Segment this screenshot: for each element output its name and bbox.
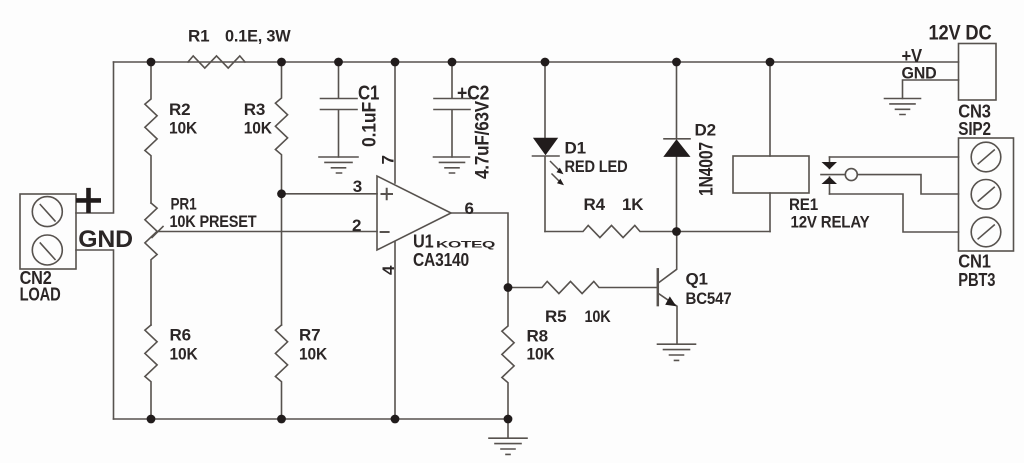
- CN2 screw 2: [32, 235, 62, 265]
- resistor R4: [545, 225, 677, 237]
- svg-text:1K: 1K: [622, 195, 644, 214]
- node dot bottom rail pin4: [391, 415, 400, 424]
- transistor Q1 base bar: [657, 269, 660, 305]
- svg-text:10K: 10K: [170, 345, 199, 364]
- svg-text:0.1uF: 0.1uF: [360, 102, 381, 147]
- svg-text:RE1: RE1: [789, 195, 818, 214]
- svg-text:R1: R1: [188, 27, 209, 46]
- wire R3 bottom to op-amp pin 3: [282, 193, 378, 195]
- ground under C2: [434, 157, 470, 173]
- svg-text:4.7uF/63V: 4.7uF/63V: [473, 101, 494, 179]
- relay pole stub line: [821, 174, 845, 176]
- svg-text:R3: R3: [244, 100, 265, 119]
- resistor R6: [145, 325, 157, 419]
- resistor R7: [275, 325, 287, 419]
- svg-text:10K: 10K: [585, 307, 612, 326]
- potentiometer PR1: [145, 203, 157, 325]
- CN2 screw 1: [32, 197, 62, 227]
- LED D1: [544, 62, 546, 138]
- resistor R5: [508, 281, 657, 293]
- node dot top rail R3: [277, 58, 286, 67]
- plus sign at CN2: [78, 190, 98, 210]
- wire R3 to R7 column: [281, 194, 283, 325]
- relay pole circle: [845, 169, 857, 181]
- transistor Q1 emitter arrow: [665, 296, 676, 306]
- svg-text:3: 3: [353, 177, 362, 196]
- svg-text:D1: D1: [565, 139, 586, 158]
- svg-text:10K PRESET: 10K PRESET: [170, 212, 258, 231]
- node dot top rail C2: [448, 58, 457, 67]
- wire CN2 GND to bottom rail: [76, 250, 114, 419]
- CN1 screw 2: [971, 180, 1001, 210]
- wire CN3 GND: [903, 80, 959, 99]
- wire op-amp output pin 6: [451, 213, 508, 288]
- ground under R8: [489, 438, 527, 454]
- relay RE1 coil box: [733, 156, 809, 193]
- svg-text:RED LED: RED LED: [565, 157, 628, 176]
- relay contact arrow bottom: [822, 177, 838, 184]
- connector CN3 box: [959, 44, 997, 101]
- wire relay pole to CN1 pin2: [857, 175, 958, 194]
- node dot bottom rail R6: [147, 415, 156, 424]
- node dot bottom rail R8: [504, 415, 513, 424]
- wire PR1 wiper to op-amp pin 2: [157, 231, 377, 233]
- svg-text:GND: GND: [78, 226, 133, 253]
- svg-text:LOAD: LOAD: [20, 284, 61, 305]
- node dot top rail D1: [541, 58, 550, 67]
- svg-text:1N4007: 1N4007: [697, 142, 718, 196]
- svg-text:10K: 10K: [299, 345, 328, 364]
- wire bottom rail GND: [114, 418, 509, 420]
- CN1 screw 1: [971, 142, 1001, 172]
- connector CN2 box: [20, 194, 76, 269]
- svg-text:10K: 10K: [244, 119, 273, 138]
- svg-text:R8: R8: [527, 326, 548, 345]
- op-amp U1 triangle: [377, 176, 451, 250]
- LED D1 triangle: [533, 138, 558, 156]
- node dot top rail R2: [147, 58, 156, 67]
- LED D1 arrows: [551, 162, 561, 183]
- svg-text:2: 2: [352, 216, 361, 235]
- svg-text:BC547: BC547: [686, 289, 732, 308]
- wire op-amp pin 7 to top rail: [394, 62, 396, 183]
- svg-text:R6: R6: [170, 326, 191, 345]
- ground under Q1: [658, 344, 696, 360]
- node dot D2 R4 relay junction: [672, 227, 681, 236]
- CN1 screw 3: [971, 217, 1001, 247]
- svg-text:Q1: Q1: [686, 270, 708, 289]
- resistor R3: [275, 62, 287, 194]
- connector CN1 box: [959, 138, 1014, 251]
- wire relay coil bottom: [769, 193, 771, 232]
- wire R8 bottom lead to ground: [507, 419, 509, 438]
- svg-text:GND: GND: [902, 64, 937, 83]
- svg-text:R4: R4: [584, 195, 606, 214]
- PR1 wiper tick: [152, 227, 163, 238]
- node dot top rail D2: [672, 58, 681, 67]
- resistor R2: [145, 62, 157, 203]
- svg-text:12V RELAY: 12V RELAY: [791, 213, 871, 232]
- resistor R8: [502, 288, 514, 420]
- svg-text:4: 4: [379, 265, 398, 275]
- node dot top rail pin7: [391, 58, 400, 67]
- svg-text:SIP2: SIP2: [958, 118, 991, 139]
- capacitor C2: [434, 62, 470, 157]
- node dot output junction: [504, 283, 513, 292]
- wire top rail +V: [114, 61, 959, 63]
- svg-text:R7: R7: [299, 326, 320, 345]
- wire CN2 plus to top rail: [76, 62, 114, 213]
- svg-text:R2: R2: [169, 100, 190, 119]
- op-amp minus input marker: [381, 231, 389, 233]
- node dot pin3 junction: [277, 189, 286, 198]
- svg-text:CA3140: CA3140: [413, 249, 469, 270]
- svg-text:PBT3: PBT3: [958, 269, 995, 290]
- diode D2: [664, 62, 690, 232]
- svg-text:10K: 10K: [169, 119, 198, 138]
- svg-text:6: 6: [465, 199, 474, 218]
- LED D1 arrowheads: [557, 168, 564, 175]
- svg-text:12V DC: 12V DC: [929, 21, 992, 44]
- diode D2 triangle: [663, 139, 690, 157]
- wire Q1 emitter: [659, 294, 677, 344]
- node dot bottom rail R7: [277, 415, 286, 424]
- wire op-amp pin 4 to bottom rail: [394, 242, 396, 419]
- svg-text:PR1: PR1: [171, 195, 197, 214]
- ground under CN3 GND: [885, 99, 921, 115]
- wire relay contact top to CN1 pin1: [830, 156, 959, 158]
- wire Q1 collector: [659, 232, 677, 283]
- svg-text:10K: 10K: [527, 344, 556, 363]
- svg-text:0.1E, 3W: 0.1E, 3W: [225, 27, 292, 46]
- svg-text:R5: R5: [545, 307, 566, 326]
- svg-text:D2: D2: [695, 121, 716, 140]
- capacitor C1: [321, 62, 358, 157]
- resistor R1: [188, 56, 245, 68]
- node dot top rail C1: [334, 58, 343, 67]
- op-amp plus input marker: [382, 189, 393, 200]
- relay contact bar: [829, 157, 831, 194]
- node dot top rail relay: [766, 58, 775, 67]
- ground under C1: [319, 157, 358, 173]
- svg-text:C1: C1: [358, 82, 379, 104]
- wire D2 junction to relay drop: [677, 231, 771, 233]
- wire relay coil top to rail: [769, 62, 771, 156]
- svg-text:7: 7: [379, 155, 398, 164]
- wire relay contact bottom to CN1 pin3: [830, 194, 959, 232]
- relay contact arrow top: [822, 162, 838, 169]
